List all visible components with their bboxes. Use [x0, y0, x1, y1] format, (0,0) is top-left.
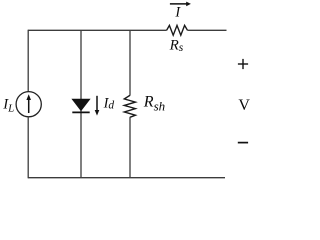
resistor Rsh (shunt) zigzag	[124, 95, 135, 117]
svg-text:Rsh: Rsh	[143, 94, 165, 114]
wire shunt branch lower	[129, 117, 131, 178]
resistor Rs (series) zigzag	[167, 25, 188, 35]
diode D1 (filled triangle + cathode bar)	[72, 99, 90, 112]
svg-text:Id: Id	[103, 96, 115, 112]
current arrow I (top right)	[170, 2, 191, 7]
wire shunt branch upper	[129, 30, 131, 95]
current arrow Id (downward)	[95, 96, 100, 116]
svg-text:IL: IL	[2, 96, 14, 114]
wire bottom bus	[28, 177, 225, 179]
svg-text:Rs: Rs	[169, 37, 184, 54]
wire left vertical upper (corner to current source)	[27, 30, 29, 92]
svg-text:I: I	[174, 5, 181, 21]
wire diode branch vertical	[80, 30, 82, 177]
current source arrow (upward)	[26, 94, 31, 113]
wire top right (Rs to output terminal)	[188, 29, 227, 31]
minus terminal label	[238, 142, 248, 144]
wire left vertical lower (current source to bottom-left corner)	[27, 117, 29, 179]
svg-text:V: V	[238, 97, 250, 114]
plus terminal label	[238, 59, 248, 69]
current source IL circle	[16, 92, 41, 117]
wire top bus (top-left corner to Rs)	[28, 29, 166, 31]
